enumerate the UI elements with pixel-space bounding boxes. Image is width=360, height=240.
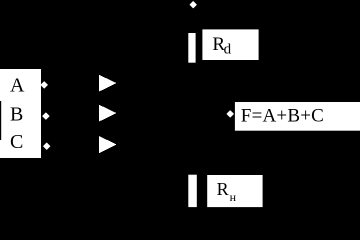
diode VD2: [99, 105, 117, 122]
label box Rn: [207, 175, 262, 207]
diode VD3: [99, 136, 117, 153]
svg-text:C: C: [10, 131, 23, 153]
diode VD1: [99, 75, 117, 92]
resistor Rn body: [188, 175, 197, 207]
junction node A: [41, 82, 47, 88]
svg-text:B: B: [10, 104, 23, 126]
label box F=A+B+C: [235, 102, 360, 131]
gap notch at left edge of input box: [0, 101, 1, 140]
svg-text:н: н: [230, 190, 237, 204]
svg-text:R: R: [217, 179, 229, 199]
resistor Rd body: [188, 33, 195, 63]
svg-text:A: A: [10, 75, 25, 97]
input label box A/B/C: [0, 69, 41, 158]
label box Rd: [202, 29, 258, 60]
svg-text:F=A+B+C: F=A+B+C: [241, 106, 324, 127]
junction node B: [43, 113, 49, 119]
label Rd text: [212, 34, 231, 58]
svg-text:d: d: [224, 42, 232, 58]
output node F: [227, 111, 233, 117]
supply node (top): [190, 2, 196, 8]
label Rn text: [217, 179, 237, 204]
junction node C: [44, 143, 50, 149]
